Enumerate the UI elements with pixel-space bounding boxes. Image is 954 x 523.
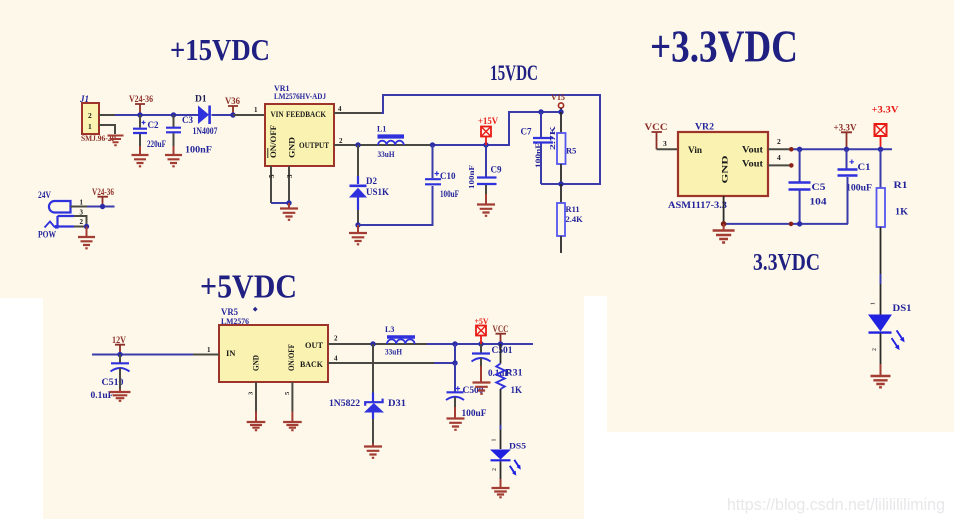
net label 12V <box>112 335 126 357</box>
wire VCC to VR2 pin3 <box>657 139 679 149</box>
resistor R1 <box>877 149 909 274</box>
svg-text:1: 1 <box>254 106 258 114</box>
node C3 <box>171 112 176 117</box>
net label VCC <box>493 324 509 347</box>
regulator VR1 <box>265 84 334 166</box>
node R1 top <box>878 147 883 152</box>
svg-text:1N4007: 1N4007 <box>193 127 218 137</box>
svg-text:R5: R5 <box>566 146 576 156</box>
svg-text:OUTPUT: OUTPUT <box>299 141 330 150</box>
wire 3.3V rail <box>794 148 893 150</box>
svg-text:V15: V15 <box>551 92 565 102</box>
node POW pin2 <box>84 224 89 237</box>
ground at C2 <box>132 155 149 166</box>
svg-text:GND: GND <box>288 137 297 158</box>
svg-text:C9: C9 <box>491 165 502 175</box>
ground at J1 pin1 <box>108 136 124 146</box>
svg-text:33uH: 33uH <box>385 348 403 357</box>
regulator VR2 <box>668 122 768 212</box>
svg-text:Vin: Vin <box>688 145 702 155</box>
svg-text:100uF: 100uF <box>462 408 488 418</box>
J1 pin1 wire to ground <box>99 125 115 134</box>
svg-text:+15VDC: +15VDC <box>170 32 270 67</box>
svg-text:1: 1 <box>88 122 92 131</box>
white bottom fringe <box>0 519 584 523</box>
capacitor C510 <box>91 355 130 401</box>
svg-text:R31: R31 <box>506 368 524 378</box>
capacitor C500 <box>446 363 487 418</box>
node D31 <box>370 341 375 346</box>
svg-text:5: 5 <box>268 174 276 178</box>
svg-text:VCC: VCC <box>493 324 509 334</box>
svg-text:C3: C3 <box>182 115 193 125</box>
svg-text:C10: C10 <box>440 171 456 181</box>
white cutout vertical strip <box>584 296 607 523</box>
svg-text:2: 2 <box>334 335 338 343</box>
svg-text:VR2: VR2 <box>695 122 715 132</box>
svg-text:2: 2 <box>777 137 781 146</box>
node C10 <box>430 142 435 147</box>
capacitor C9 <box>468 145 502 204</box>
svg-text:L3: L3 <box>385 325 394 334</box>
net label VCC at VR2 <box>645 123 668 149</box>
svg-text:+3.3V: +3.3V <box>872 106 899 116</box>
svg-text:1: 1 <box>80 199 84 207</box>
svg-text:220uF: 220uF <box>147 139 166 149</box>
VR2 pin 2 stub <box>768 137 794 152</box>
capacitor C3 <box>166 115 213 155</box>
net label +3.3V dark <box>834 123 857 150</box>
svg-text:1K: 1K <box>895 208 909 218</box>
svg-text:D1: D1 <box>195 95 207 105</box>
capacitor C5 <box>789 149 827 224</box>
svg-text:15VDC: 15VDC <box>490 60 538 85</box>
svg-text:+3.3VDC: +3.3VDC <box>650 21 798 72</box>
ground at D2 <box>349 233 367 244</box>
svg-text:1: 1 <box>207 346 211 354</box>
svg-text:+5VDC: +5VDC <box>200 269 297 306</box>
svg-text:1N5822: 1N5822 <box>329 398 361 408</box>
J1 pin2 stub <box>99 114 115 116</box>
svg-text:2: 2 <box>339 137 343 145</box>
VR2 GND pin <box>721 196 727 230</box>
svg-text:2.7K: 2.7K <box>548 126 557 150</box>
svg-text:2: 2 <box>492 468 498 471</box>
node C2 <box>137 112 142 117</box>
title +15VDC <box>170 32 270 67</box>
svg-text:100uF: 100uF <box>440 189 459 199</box>
white cutout bottom-left <box>0 298 43 523</box>
wire D1 to V36 <box>212 114 234 116</box>
svg-text:LM2576HV-ADJ: LM2576HV-ADJ <box>274 92 326 101</box>
svg-text:GND: GND <box>720 156 730 184</box>
wire ground rail <box>724 221 848 226</box>
ground at C500 <box>447 419 465 430</box>
svg-text:3: 3 <box>663 139 667 148</box>
wire D2 C10 bottom <box>355 186 432 233</box>
svg-text:L1: L1 <box>377 125 386 134</box>
title +3.3VDC <box>650 21 798 72</box>
wire output rail blue part <box>433 112 562 145</box>
ground at D31 <box>364 447 382 458</box>
ground at VR5 pin5 <box>283 422 302 430</box>
svg-text:24V: 24V <box>38 190 51 200</box>
diode D1 <box>193 95 218 138</box>
ground at C510 <box>110 392 131 401</box>
capacitor C501 <box>472 344 514 382</box>
capacitor C2 <box>133 115 166 155</box>
svg-text:R11: R11 <box>566 204 580 214</box>
node C5 top <box>797 147 802 152</box>
node +5V <box>478 341 483 346</box>
svg-text:+15V: +15V <box>478 116 498 126</box>
svg-text:GND: GND <box>252 355 261 371</box>
net label V24-36 <box>129 94 153 115</box>
svg-text:1: 1 <box>492 439 498 442</box>
node feedback join <box>452 344 457 366</box>
ground at C3 <box>165 155 182 166</box>
VR5 pin 3 <box>248 382 257 422</box>
svg-text:DS5: DS5 <box>509 441 526 451</box>
ground at C501 <box>473 383 491 394</box>
node C7 <box>538 109 543 114</box>
svg-text:V24-36: V24-36 <box>92 187 114 197</box>
ground at DS1 <box>871 376 891 387</box>
node D2 <box>355 142 360 147</box>
diode D31 <box>329 344 407 446</box>
title +5VDC <box>200 269 297 306</box>
VR1 pin 4 stub <box>334 105 381 113</box>
LED DS5 <box>490 425 526 488</box>
ground at VR1 <box>280 209 298 220</box>
ground at POW <box>78 237 95 248</box>
power +3.3V <box>872 106 899 150</box>
svg-text:4: 4 <box>338 105 342 113</box>
svg-text:3: 3 <box>286 174 294 178</box>
node C1 top <box>844 147 849 152</box>
title 3.3VDC <box>753 250 820 276</box>
svg-text:4: 4 <box>777 153 781 162</box>
inductor L3 <box>385 325 415 357</box>
wire V36 to VR1 pin1 <box>233 106 265 115</box>
svg-text:FEEDBACK: FEEDBACK <box>286 110 327 119</box>
svg-text:33uH: 33uH <box>378 150 396 159</box>
svg-text:ON/OFF: ON/OFF <box>287 344 296 371</box>
svg-text:D2: D2 <box>366 176 377 186</box>
VR1 pin 5 <box>268 166 276 203</box>
svg-text:BACK: BACK <box>300 359 323 369</box>
capacitor C7 <box>521 112 554 184</box>
svg-text:2.4K: 2.4K <box>566 214 584 224</box>
svg-text:C501: C501 <box>492 345 514 355</box>
VR2 pin 4 stub <box>768 153 794 168</box>
net label V36 <box>225 96 240 118</box>
svg-text:100nF: 100nF <box>185 145 213 155</box>
resistor R11 <box>557 184 583 253</box>
capacitor C10 <box>425 145 459 199</box>
svg-text:C1: C1 <box>858 163 871 173</box>
svg-text:Vout: Vout <box>742 145 763 155</box>
resistor R5 <box>548 112 576 184</box>
watermark <box>727 495 945 514</box>
svg-text:1: 1 <box>871 302 877 305</box>
wire feedback loop <box>381 95 600 184</box>
wire input to VR5 pin1 <box>92 346 219 355</box>
svg-text:ON/OFF: ON/OFF <box>269 125 278 158</box>
svg-text:R1: R1 <box>894 181 908 191</box>
wire R5 bottom <box>541 181 600 186</box>
svg-text:D31: D31 <box>388 398 407 408</box>
VR5 pin 2 stub <box>328 335 373 345</box>
ground at DS5 <box>492 488 510 497</box>
svg-text:2: 2 <box>88 111 92 120</box>
wire main input rail <box>115 114 198 116</box>
svg-text:3.3VDC: 3.3VDC <box>753 250 820 276</box>
svg-text:1K: 1K <box>511 385 523 395</box>
svg-text:C5: C5 <box>812 183 826 193</box>
net V15 <box>551 92 565 115</box>
svg-text:V36: V36 <box>225 96 240 106</box>
title 15VDC <box>490 60 538 85</box>
svg-text:ASM1117-3.3: ASM1117-3.3 <box>668 201 727 211</box>
white cutout bottom-right <box>607 432 954 523</box>
svg-text:100uF: 100uF <box>846 184 872 194</box>
svg-text:IN: IN <box>226 348 236 358</box>
ground at VR5 pin3 <box>247 422 266 430</box>
connector J1 <box>79 94 116 143</box>
svg-text:Vout: Vout <box>742 159 763 169</box>
node L3 out <box>452 341 457 346</box>
net label V24-36 at POW <box>92 187 114 209</box>
svg-text:12V: 12V <box>112 335 126 345</box>
VR5 pin 4 stub and wire <box>328 355 455 364</box>
svg-text:C7: C7 <box>521 127 532 137</box>
node +15V <box>483 142 488 147</box>
svg-text:4: 4 <box>334 355 338 363</box>
svg-text:POW: POW <box>38 231 56 241</box>
power +5V <box>475 316 490 344</box>
svg-text:C2: C2 <box>148 120 159 130</box>
svg-text:2: 2 <box>80 218 84 226</box>
power +15V <box>478 116 498 145</box>
wire output rail gray part <box>358 144 433 146</box>
ground at C9 <box>477 205 495 216</box>
regulator VR5 <box>219 307 328 382</box>
svg-text:VIN: VIN <box>271 110 284 119</box>
svg-text:V24-36: V24-36 <box>129 94 153 104</box>
svg-text:US1K: US1K <box>366 187 389 197</box>
svg-text:100nF: 100nF <box>468 165 476 189</box>
capacitor C1 <box>838 149 873 224</box>
svg-text:+3.3V: +3.3V <box>834 123 857 133</box>
VR5 pin 5 <box>284 382 293 422</box>
VR1 pin 2 stub <box>334 137 358 145</box>
diode D2 <box>349 145 389 225</box>
svg-text:104: 104 <box>810 198 827 208</box>
wire VR1 pins 5-3 join <box>271 200 292 208</box>
svg-text:+5V: +5V <box>475 316 490 326</box>
svg-text:https://blog.csdn.net/lililili: https://blog.csdn.net/lililililiming <box>727 495 945 514</box>
svg-text:2: 2 <box>872 348 878 351</box>
wire POW pin1 <box>87 206 115 208</box>
svg-text:DS1: DS1 <box>893 303 913 313</box>
LED DS1 <box>868 274 912 376</box>
inductor L1 <box>377 125 404 160</box>
svg-text:OUT: OUT <box>305 340 323 350</box>
ground at VR2 <box>713 231 735 243</box>
resistor R31 <box>496 344 523 425</box>
wire output rail <box>373 343 533 345</box>
power jack POW <box>38 190 87 241</box>
VR1 pin 3 <box>286 166 294 203</box>
